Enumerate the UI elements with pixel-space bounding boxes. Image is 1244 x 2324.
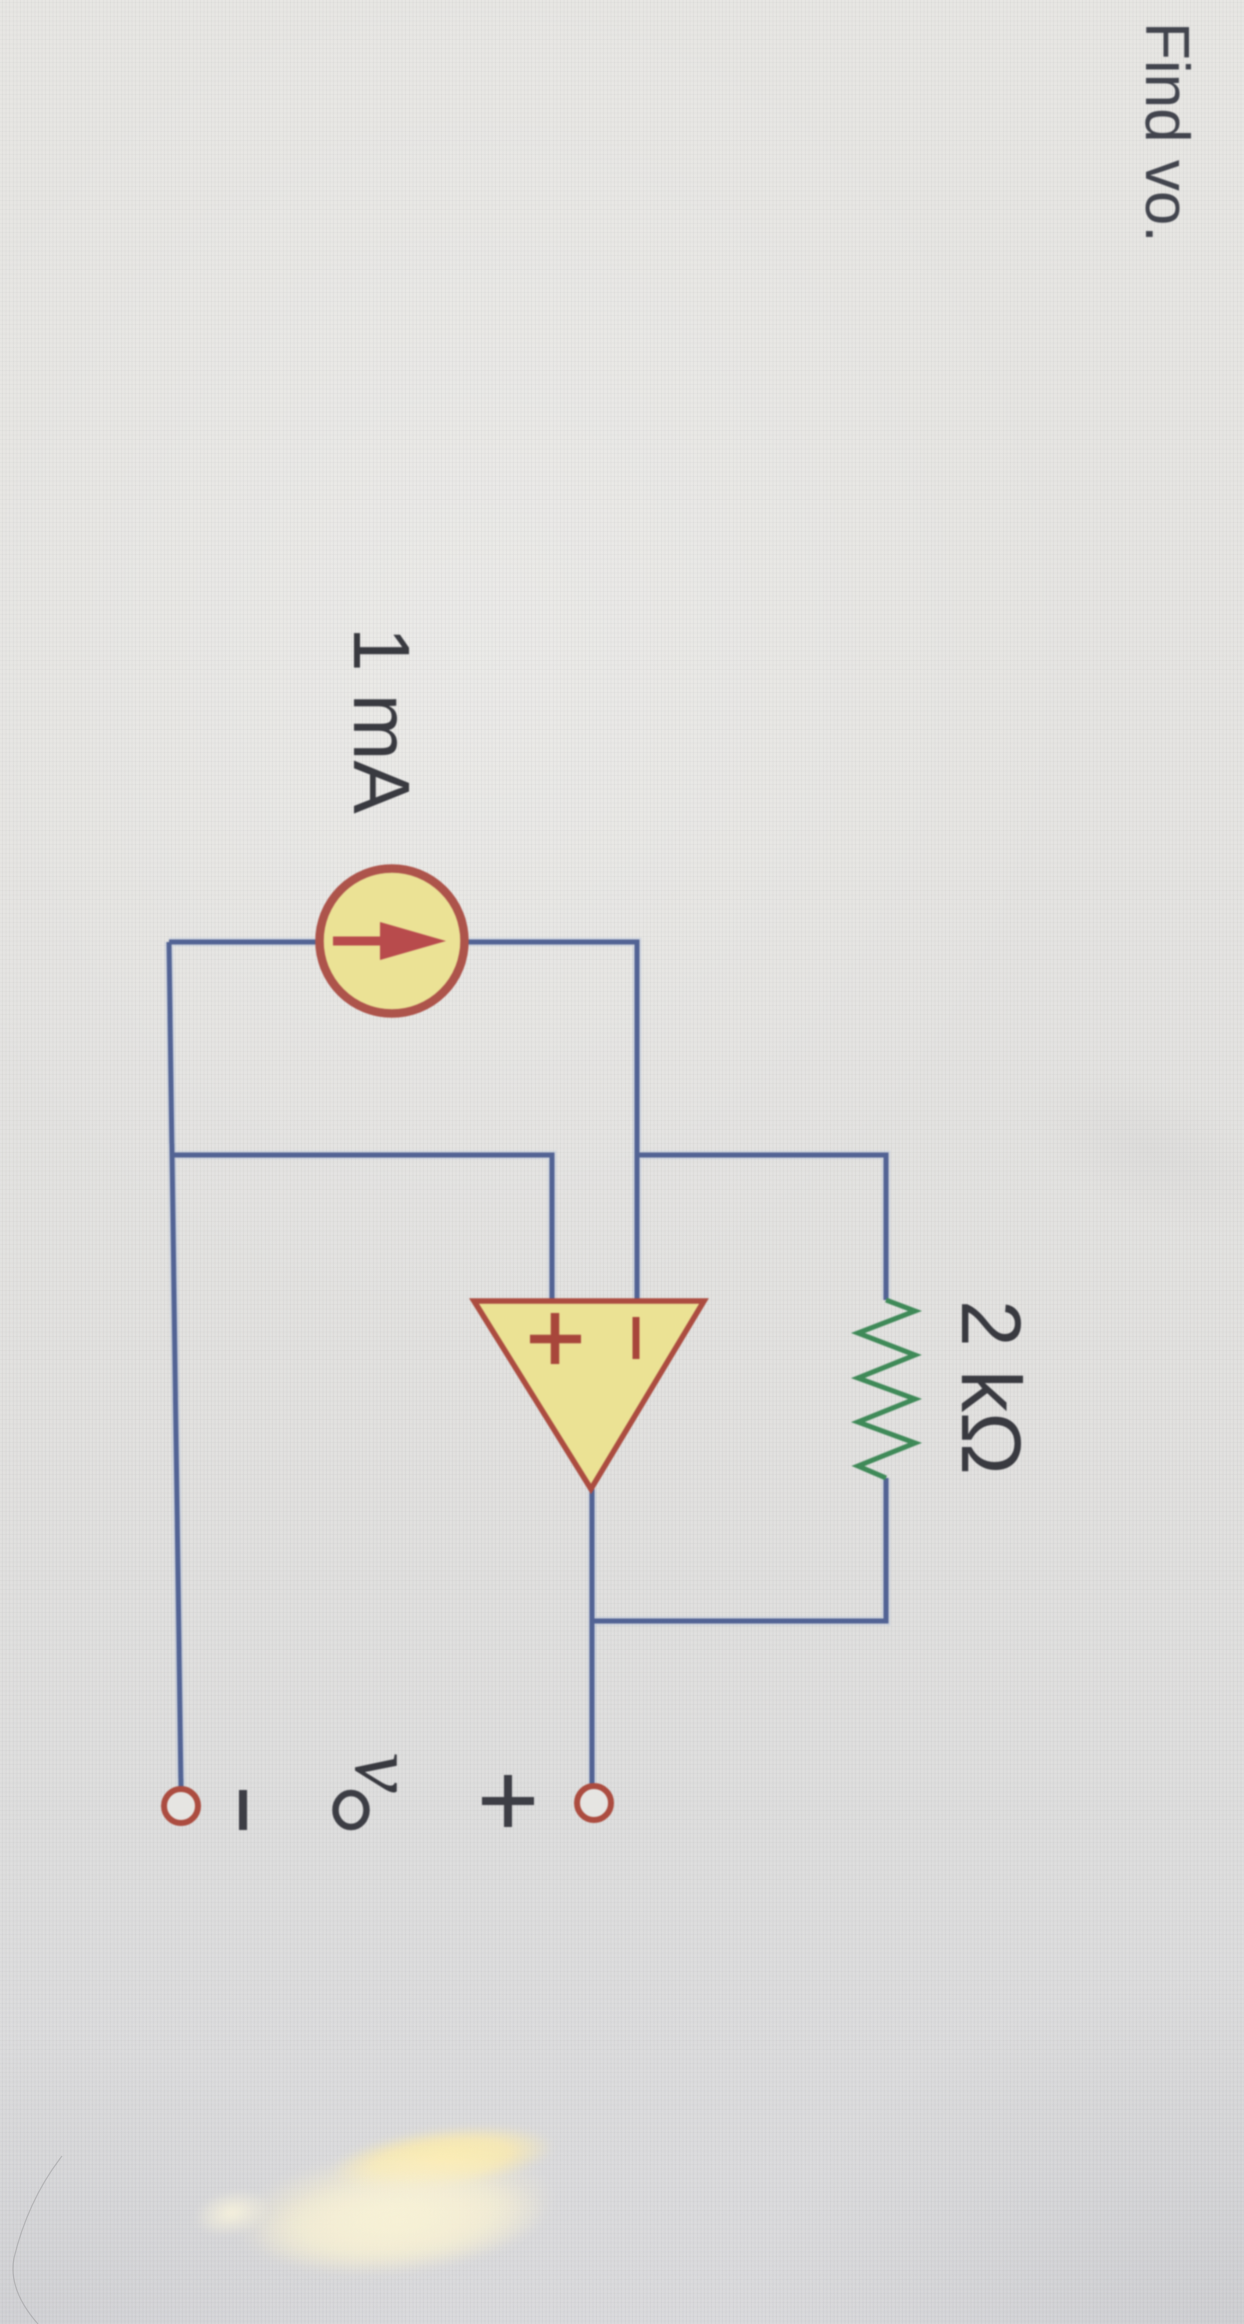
wire: plus input branch bbox=[172, 1155, 552, 1301]
wire: bottom rail bbox=[169, 942, 181, 1787]
camera flash glare bbox=[327, 2115, 558, 2204]
current source arrow bbox=[333, 937, 381, 946]
label: output plus polarity bbox=[482, 1775, 534, 1827]
wire halos bbox=[169, 942, 886, 1787]
label: output minus polarity bbox=[239, 1790, 247, 1830]
label: vo subscript o bbox=[336, 1793, 367, 1827]
op-amp U1 body bbox=[474, 1301, 704, 1489]
wire: junction to resistor left lead bbox=[637, 1155, 886, 1300]
wire: source branch top to minus input bbox=[169, 942, 886, 1787]
current source I1 circle bbox=[320, 869, 465, 1014]
terminal: vo plus (output) bbox=[577, 1786, 611, 1820]
wire: output to terminal bbox=[590, 1489, 595, 1786]
resistor R1 zigzag bbox=[858, 1300, 915, 1478]
op-amp minus input symbol bbox=[633, 1317, 640, 1359]
op-amp plus input symbol bbox=[530, 1313, 581, 1364]
wire: resistor right lead + feedback drop bbox=[592, 1478, 886, 1621]
terminal: vo minus (left rail) bbox=[164, 1789, 198, 1823]
